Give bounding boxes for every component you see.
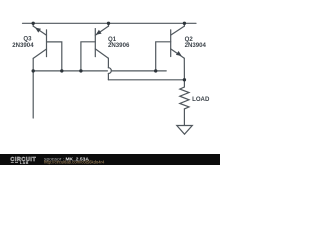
transistor Q2 emitter arrow (NPN, pointing down-right) <box>176 51 182 56</box>
transistor Q1 emitter diagonal <box>95 26 108 35</box>
wire: resistor to ground <box>183 109 185 126</box>
transistor Q2 emitter diagonal <box>171 49 185 58</box>
node: load node junction <box>183 78 186 81</box>
wire hop over base bus <box>108 68 111 74</box>
wire: base bus right segment <box>111 70 166 72</box>
resistor LOAD zigzag <box>180 87 189 109</box>
node: bus / Q3 collector junction <box>32 69 35 72</box>
node: rail / Q1 emitter junction <box>107 22 110 25</box>
footer logo wire glyph <box>11 162 18 164</box>
wire: Q3 collector down <box>32 58 34 118</box>
svg-text:LAB: LAB <box>20 161 29 165</box>
wire: Q2 collector stub to rail <box>183 23 185 26</box>
wire: Q2 base lead <box>156 42 171 71</box>
transistor Q3 emitter arrow (NPN, pointing up-left to rail) <box>35 28 41 33</box>
transistor Q2 collector diagonal <box>171 26 185 35</box>
svg-text:2N3904: 2N3904 <box>185 42 207 49</box>
wire: horizontal from Q1 collector to load node <box>108 79 184 81</box>
wire: Q1 base lead <box>81 42 95 71</box>
svg-text:2N3906: 2N3906 <box>108 42 130 49</box>
transistor Q1 emitter arrow (PNP, pointing into base bar) <box>96 30 102 35</box>
wire: Q2 emitter down to load node <box>183 58 185 80</box>
transistor Q3 base bar <box>46 30 48 57</box>
node: bus / Q3 base junction <box>60 69 63 72</box>
svg-text:2N3904: 2N3904 <box>12 42 34 49</box>
wire: Q1 emitter stub to rail <box>108 23 110 26</box>
transistor Q3 emitter diagonal <box>33 26 46 35</box>
wire: load node to resistor <box>183 80 185 87</box>
ground symbol <box>177 126 193 135</box>
node: rail / Q2 collector junction <box>183 22 186 25</box>
transistor Q1 collector diagonal <box>95 49 108 58</box>
transistor Q2 base bar <box>170 30 172 57</box>
svg-text:http://circuitlab.com/c6t56kdo: http://circuitlab.com/c6t56kdo4r4 <box>44 160 105 165</box>
wire: Q1 collector down to hop <box>107 58 109 67</box>
node: bus / Q1 base junction <box>79 69 82 72</box>
wire: top positive rail <box>23 22 197 24</box>
wire: Q3 emitter stub to rail <box>32 23 34 26</box>
svg-text:LOAD: LOAD <box>192 96 210 103</box>
node: bus / Q2 base junction <box>154 69 157 72</box>
wire: base bus left segment <box>33 70 107 72</box>
transistor Q3 collector diagonal <box>33 49 46 58</box>
wire: Q3 base lead <box>47 42 62 71</box>
footer bar <box>0 154 220 165</box>
transistor Q1 base bar <box>94 29 96 57</box>
node: rail / Q3 emitter junction <box>32 22 35 25</box>
wire: Q1 collector below hop <box>107 74 109 80</box>
